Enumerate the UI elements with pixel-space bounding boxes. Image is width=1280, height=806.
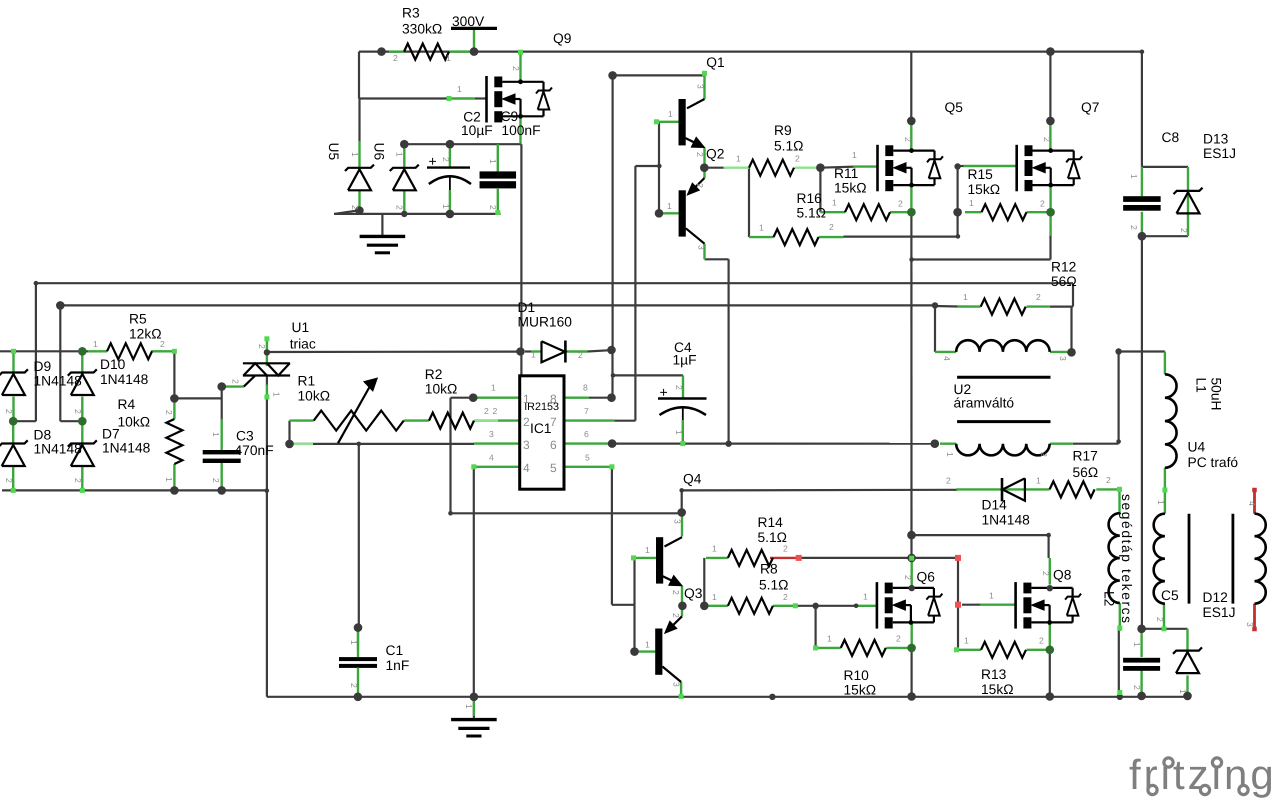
svg-text:8: 8 bbox=[583, 383, 588, 393]
svg-text:1: 1 bbox=[1178, 689, 1188, 694]
svg-text:2: 2 bbox=[896, 634, 901, 644]
svg-text:D9: D9 bbox=[34, 359, 52, 374]
svg-text:2: 2 bbox=[73, 478, 83, 483]
svg-text:Q7: Q7 bbox=[1081, 100, 1099, 115]
svg-text:U1: U1 bbox=[292, 320, 310, 335]
svg-text:1N4148: 1N4148 bbox=[982, 513, 1031, 528]
svg-text:2: 2 bbox=[578, 350, 583, 360]
svg-text:1: 1 bbox=[531, 350, 536, 360]
svg-text:2: 2 bbox=[4, 409, 14, 414]
svg-text:2: 2 bbox=[441, 157, 451, 162]
svg-text:U6: U6 bbox=[372, 143, 387, 161]
svg-text:1: 1 bbox=[350, 152, 360, 157]
svg-text:2: 2 bbox=[1155, 617, 1165, 622]
svg-text:1N4148: 1N4148 bbox=[100, 372, 149, 387]
svg-text:1: 1 bbox=[441, 204, 451, 209]
svg-text:2: 2 bbox=[395, 205, 405, 210]
svg-text:2: 2 bbox=[1106, 475, 1111, 485]
svg-text:D8: D8 bbox=[34, 428, 52, 443]
svg-text:1: 1 bbox=[827, 634, 832, 644]
svg-text:1: 1 bbox=[969, 198, 974, 208]
svg-text:2: 2 bbox=[1179, 228, 1189, 233]
svg-text:12kΩ: 12kΩ bbox=[129, 327, 162, 342]
svg-text:1: 1 bbox=[945, 452, 955, 457]
svg-text:C5: C5 bbox=[1161, 588, 1179, 603]
svg-text:R16: R16 bbox=[797, 191, 823, 206]
svg-text:1: 1 bbox=[272, 392, 282, 397]
svg-text:5.1Ω: 5.1Ω bbox=[774, 139, 804, 154]
svg-text:3: 3 bbox=[1058, 356, 1068, 361]
svg-text:R17: R17 bbox=[1073, 449, 1098, 464]
svg-text:2: 2 bbox=[1042, 137, 1052, 142]
svg-text:D12: D12 bbox=[1203, 590, 1228, 605]
svg-text:2: 2 bbox=[211, 478, 221, 483]
svg-text:2: 2 bbox=[164, 410, 174, 415]
svg-text:2: 2 bbox=[349, 683, 359, 688]
svg-text:R1: R1 bbox=[298, 374, 316, 389]
svg-text:6: 6 bbox=[550, 438, 557, 452]
svg-text:C1: C1 bbox=[386, 643, 404, 658]
svg-text:R2: R2 bbox=[425, 367, 443, 382]
svg-text:Q9: Q9 bbox=[553, 31, 572, 46]
svg-text:PC trafó: PC trafó bbox=[1188, 455, 1239, 470]
svg-text:6: 6 bbox=[584, 429, 589, 439]
svg-text:1: 1 bbox=[712, 592, 717, 602]
svg-text:2: 2 bbox=[1129, 225, 1139, 230]
svg-text:R3: R3 bbox=[402, 6, 420, 21]
svg-text:Q3: Q3 bbox=[684, 586, 703, 601]
svg-text:7: 7 bbox=[584, 406, 589, 416]
svg-text:1nF: 1nF bbox=[386, 658, 410, 673]
svg-text:2: 2 bbox=[1039, 452, 1049, 457]
svg-text:2: 2 bbox=[523, 415, 530, 429]
svg-text:2: 2 bbox=[695, 183, 705, 188]
svg-text:1: 1 bbox=[457, 84, 462, 94]
svg-text:10kΩ: 10kΩ bbox=[298, 389, 331, 404]
svg-text:1: 1 bbox=[1036, 476, 1041, 486]
svg-text:1: 1 bbox=[863, 592, 868, 602]
svg-text:1: 1 bbox=[852, 150, 857, 160]
svg-text:1: 1 bbox=[1129, 174, 1139, 179]
svg-text:1: 1 bbox=[1156, 500, 1166, 505]
svg-text:10µF: 10µF bbox=[461, 123, 493, 138]
svg-text:1: 1 bbox=[645, 640, 650, 650]
svg-text:R5: R5 bbox=[129, 312, 147, 327]
svg-text:3: 3 bbox=[1245, 622, 1255, 627]
svg-text:triac: triac bbox=[290, 337, 316, 352]
svg-text:1: 1 bbox=[989, 591, 994, 601]
svg-text:L1: L1 bbox=[1194, 378, 1209, 393]
svg-text:1: 1 bbox=[667, 201, 672, 211]
svg-text:330kΩ: 330kΩ bbox=[402, 22, 442, 37]
svg-text:2: 2 bbox=[829, 222, 834, 232]
svg-text:IC1: IC1 bbox=[530, 421, 551, 436]
svg-text:L2: L2 bbox=[1102, 591, 1117, 606]
svg-text:4: 4 bbox=[489, 453, 494, 463]
svg-text:1: 1 bbox=[963, 292, 968, 302]
svg-text:R12: R12 bbox=[1051, 260, 1076, 275]
svg-text:2: 2 bbox=[1036, 292, 1041, 302]
svg-text:+: + bbox=[429, 153, 437, 169]
svg-text:50uH: 50uH bbox=[1209, 378, 1224, 411]
svg-text:R9: R9 bbox=[774, 123, 792, 138]
svg-text:1: 1 bbox=[395, 152, 405, 157]
svg-text:1: 1 bbox=[349, 640, 359, 645]
svg-text:2: 2 bbox=[695, 152, 705, 157]
svg-text:MUR160: MUR160 bbox=[518, 315, 573, 330]
svg-text:1: 1 bbox=[523, 392, 530, 406]
svg-text:1N4148: 1N4148 bbox=[34, 442, 83, 457]
svg-text:1: 1 bbox=[759, 223, 764, 233]
svg-text:5: 5 bbox=[550, 461, 557, 475]
svg-text:15kΩ: 15kΩ bbox=[968, 182, 1001, 197]
svg-text:300V: 300V bbox=[452, 14, 485, 29]
svg-text:D1: D1 bbox=[518, 300, 536, 315]
svg-text:R10: R10 bbox=[844, 668, 870, 683]
svg-text:2: 2 bbox=[1041, 571, 1051, 576]
svg-text:2: 2 bbox=[903, 137, 913, 142]
svg-text:2: 2 bbox=[671, 590, 681, 595]
svg-text:1: 1 bbox=[491, 383, 496, 393]
svg-text:D13: D13 bbox=[1203, 132, 1229, 147]
svg-text:2: 2 bbox=[795, 154, 800, 164]
svg-text:C9: C9 bbox=[501, 109, 519, 124]
svg-text:1: 1 bbox=[488, 159, 498, 164]
svg-text:4: 4 bbox=[942, 356, 952, 361]
svg-text:5.1Ω: 5.1Ω bbox=[797, 206, 827, 221]
svg-text:2: 2 bbox=[674, 385, 684, 390]
svg-text:15kΩ: 15kΩ bbox=[844, 683, 877, 698]
svg-text:2: 2 bbox=[511, 66, 521, 71]
svg-text:3: 3 bbox=[489, 429, 494, 439]
svg-text:C3: C3 bbox=[236, 429, 254, 444]
svg-text:1: 1 bbox=[712, 544, 717, 554]
svg-text:100nF: 100nF bbox=[501, 123, 540, 138]
svg-text:áramváltó: áramváltó bbox=[954, 396, 1015, 411]
svg-text:2: 2 bbox=[946, 476, 951, 486]
svg-text:R15: R15 bbox=[968, 167, 994, 182]
svg-text:R11: R11 bbox=[834, 166, 858, 181]
svg-text:2: 2 bbox=[898, 199, 903, 209]
svg-text:2: 2 bbox=[488, 205, 498, 210]
svg-text:5.1Ω: 5.1Ω bbox=[759, 578, 789, 593]
svg-text:470nF: 470nF bbox=[235, 443, 274, 458]
svg-text:2: 2 bbox=[1040, 199, 1045, 209]
svg-text:Q8: Q8 bbox=[1053, 568, 1072, 583]
svg-text:D14: D14 bbox=[982, 498, 1008, 513]
svg-text:1N4148: 1N4148 bbox=[34, 374, 83, 389]
svg-text:R14: R14 bbox=[758, 515, 784, 530]
svg-text:2: 2 bbox=[1039, 636, 1044, 646]
svg-text:2: 2 bbox=[350, 205, 360, 210]
svg-text:2: 2 bbox=[160, 339, 165, 349]
svg-text:8: 8 bbox=[550, 392, 557, 406]
svg-text:ES1J: ES1J bbox=[1203, 146, 1236, 161]
svg-text:2: 2 bbox=[4, 478, 14, 483]
svg-text:D10: D10 bbox=[100, 357, 126, 372]
svg-text:2: 2 bbox=[783, 544, 788, 554]
svg-text:3: 3 bbox=[672, 682, 682, 687]
svg-text:2: 2 bbox=[257, 344, 267, 349]
svg-text:+: + bbox=[660, 384, 668, 400]
svg-text:U4: U4 bbox=[1188, 440, 1206, 455]
svg-text:4: 4 bbox=[1247, 501, 1257, 506]
svg-text:1: 1 bbox=[668, 109, 673, 119]
svg-text:5: 5 bbox=[585, 453, 590, 463]
svg-text:Q4: Q4 bbox=[683, 472, 702, 487]
svg-text:3: 3 bbox=[673, 519, 683, 524]
svg-text:Q2: Q2 bbox=[706, 147, 724, 162]
svg-text:4: 4 bbox=[523, 461, 530, 475]
svg-text:1: 1 bbox=[464, 704, 474, 709]
svg-text:2: 2 bbox=[493, 406, 498, 416]
svg-text:1N4148: 1N4148 bbox=[102, 441, 151, 456]
svg-text:ES1J: ES1J bbox=[1203, 605, 1236, 620]
svg-text:3: 3 bbox=[697, 245, 707, 250]
svg-text:1µF: 1µF bbox=[673, 353, 697, 368]
svg-text:2: 2 bbox=[73, 409, 83, 414]
svg-text:Q1: Q1 bbox=[706, 55, 724, 70]
svg-text:1: 1 bbox=[1132, 642, 1142, 647]
svg-text:56Ω: 56Ω bbox=[1051, 274, 1077, 289]
svg-text:Q6: Q6 bbox=[917, 570, 936, 585]
svg-text:2: 2 bbox=[783, 592, 788, 602]
svg-text:1: 1 bbox=[832, 198, 837, 208]
svg-text:15kΩ: 15kΩ bbox=[834, 181, 867, 196]
svg-text:U5: U5 bbox=[326, 143, 341, 161]
svg-text:1: 1 bbox=[674, 430, 684, 435]
svg-text:3: 3 bbox=[523, 438, 530, 452]
svg-text:1: 1 bbox=[164, 477, 174, 482]
svg-text:2: 2 bbox=[231, 379, 241, 384]
svg-text:1: 1 bbox=[446, 53, 451, 63]
svg-text:1: 1 bbox=[736, 154, 741, 164]
svg-text:1: 1 bbox=[964, 636, 969, 646]
svg-text:7: 7 bbox=[550, 415, 557, 429]
svg-text:R13: R13 bbox=[981, 667, 1007, 682]
svg-text:2: 2 bbox=[1132, 685, 1142, 690]
svg-text:3: 3 bbox=[696, 84, 706, 89]
svg-text:1: 1 bbox=[645, 545, 650, 555]
svg-text:Q5: Q5 bbox=[945, 100, 964, 115]
svg-text:segédtáp tekercs: segédtáp tekercs bbox=[1119, 494, 1134, 625]
svg-text:15kΩ: 15kΩ bbox=[981, 682, 1014, 697]
svg-text:2: 2 bbox=[671, 613, 681, 618]
svg-text:10kΩ: 10kΩ bbox=[425, 382, 458, 397]
svg-text:1: 1 bbox=[93, 339, 98, 349]
svg-text:2: 2 bbox=[903, 575, 913, 580]
svg-text:56Ω: 56Ω bbox=[1073, 465, 1099, 480]
svg-text:10kΩ: 10kΩ bbox=[118, 415, 151, 430]
svg-text:2: 2 bbox=[484, 406, 489, 416]
svg-text:1: 1 bbox=[211, 432, 221, 437]
svg-text:R4: R4 bbox=[118, 397, 136, 412]
svg-text:C8: C8 bbox=[1162, 130, 1180, 145]
svg-text:R8: R8 bbox=[760, 562, 778, 577]
svg-text:2: 2 bbox=[393, 53, 398, 63]
